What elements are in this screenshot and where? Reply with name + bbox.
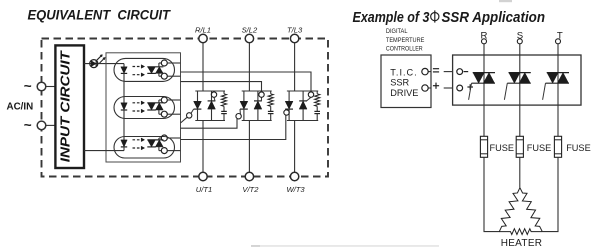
- polarity mark: plus: [433, 83, 439, 89]
- svg-text:EQUIVALENT CIRCUIT: EQUIVALENT CIRCUIT: [28, 8, 172, 24]
- SCR 2a gate terminal: [236, 114, 241, 119]
- heater delta resistor: bottom side: [499, 229, 542, 235]
- terminal R: [482, 39, 487, 44]
- opto U2 light arrows: [133, 101, 145, 113]
- triac Q3: [543, 73, 569, 100]
- AC tilde mark 2: [24, 117, 32, 132]
- snubber resistor R2: [268, 91, 273, 111]
- SCR block 1 top rail: [195, 90, 225, 92]
- svg-text:AC/IN: AC/IN: [7, 102, 34, 113]
- svg-text:SSR Application: SSR Application: [442, 10, 546, 26]
- SCR 3b (right, cathode up): [299, 91, 311, 121]
- polarity mark: double bar: [433, 69, 439, 72]
- svg-text:T/L3: T/L3: [287, 25, 303, 34]
- wire: phase T down to fuse: [557, 44, 559, 137]
- svg-text:~: ~: [24, 79, 32, 94]
- title: EQUIVALENT CIRCUIT: [28, 8, 172, 24]
- SCR 3b gate terminal: [308, 92, 313, 97]
- opto U2 photo-triac: [147, 103, 163, 110]
- terminal V/T2: [245, 172, 253, 180]
- controller output terminal minus: [422, 68, 431, 74]
- cropped artifact: grey bar bottom: [251, 245, 439, 247]
- wire: LED chain return to input circuit: [84, 147, 124, 151]
- node T/L3 label: [287, 25, 303, 34]
- indicator LED D1: [90, 55, 105, 68]
- svg-text:TEMPERTURE: TEMPERTURE: [386, 37, 425, 44]
- node S label: [517, 30, 523, 41]
- node R/L1 label: [195, 25, 211, 34]
- wire: LED chain vertical (anode feed): [123, 64, 125, 67]
- triac Q2: [504, 73, 530, 100]
- node T label: [557, 30, 563, 41]
- optocoupler group box: [106, 53, 181, 162]
- SCR block 2 top rail: [242, 90, 272, 92]
- opto U3 photo-triac: [147, 140, 163, 147]
- label AC/IN: [7, 102, 34, 113]
- SCR 2b gate terminal: [259, 92, 264, 97]
- opto U2 output terminals: [159, 97, 181, 117]
- wire: R/L1 down to SCR block: [202, 43, 204, 91]
- cropped artifact: grey smudge top: [499, 0, 512, 2]
- SCR block 1 bottom rail: [195, 120, 225, 122]
- wire: controller to SSR (plus): [444, 87, 453, 89]
- opto U1 output terminals: [159, 60, 181, 79]
- SCR 3a (left, cathode down): [285, 91, 293, 121]
- SSR module box: [453, 55, 581, 105]
- SCR block 3 bottom rail: [287, 120, 318, 122]
- terminal T: [556, 39, 561, 44]
- wire: SCR block 2 to V/T2: [248, 121, 250, 173]
- SCR 1b gate terminal: [211, 92, 216, 97]
- optocoupler U1 outline: [114, 58, 175, 81]
- svg-text:HEATER: HEATER: [501, 238, 543, 249]
- opto U1 light arrows: [133, 65, 145, 77]
- wire: fuse F1 to heater: [484, 157, 500, 231]
- wire: opto to SCR2 left gate (lower bus): [181, 119, 238, 129]
- heater delta resistor: left side: [499, 188, 520, 232]
- fuse F1: [480, 136, 487, 157]
- opto U3 LED (emitter diode): [121, 140, 127, 147]
- wire: phase R down to fuse: [483, 44, 485, 137]
- opto U1 LED (emitter diode): [121, 67, 127, 103]
- svg-text:T.I.C.: T.I.C.: [390, 67, 417, 77]
- terminal S: [517, 39, 522, 44]
- AC input terminal 2: [37, 121, 46, 130]
- svg-text:V/T2: V/T2: [242, 185, 259, 194]
- wire: controller to SSR (minus): [444, 71, 453, 73]
- wire: fuse F2 to heater apex: [519, 157, 521, 187]
- opto U3 output terminals: [159, 135, 181, 154]
- label FUSE 3: [566, 143, 591, 153]
- SCR 2a (left, cathode down): [240, 91, 248, 121]
- SCR 1b (right, cathode up): [208, 91, 216, 121]
- node R label: [481, 30, 488, 41]
- wire: phase S down to fuse: [519, 44, 521, 137]
- node U/T1 label: [196, 185, 212, 194]
- svg-text:INPUT CIRCUIT: INPUT CIRCUIT: [58, 50, 73, 162]
- svg-text:FUSE: FUSE: [527, 143, 552, 153]
- svg-text:R/L1: R/L1: [195, 25, 211, 34]
- triac Q1: [469, 73, 495, 100]
- node W/T3 label: [287, 185, 306, 194]
- wire: SCR1 left gate to opto: [181, 117, 188, 123]
- svg-text:SSR: SSR: [390, 78, 409, 88]
- wire: fuse F3 to heater: [542, 157, 558, 231]
- svg-text:W/T3: W/T3: [287, 185, 306, 194]
- svg-text:FUSE: FUSE: [490, 143, 515, 153]
- dashed enclosure box: [42, 39, 329, 177]
- terminal S/L2: [245, 34, 253, 42]
- terminal T/L3: [290, 34, 298, 42]
- label: digital temperture controller: [386, 28, 425, 52]
- fuse F3: [554, 136, 561, 157]
- snubber capacitor C1: [221, 111, 227, 120]
- svg-text:DRIVE: DRIVE: [390, 88, 418, 98]
- svg-text:U/T1: U/T1: [196, 185, 212, 194]
- SCR 1a gate terminal: [187, 113, 192, 118]
- title: Example of 3-phase SSR Application: [353, 10, 546, 26]
- SCR 3a gate terminal: [284, 110, 289, 115]
- wire: T/L3 down to SCR block: [294, 43, 296, 91]
- snubber resistor R3: [315, 91, 320, 111]
- opto U3 light arrows: [133, 138, 145, 150]
- node S/L2 label: [242, 25, 258, 34]
- snubber capacitor C2: [268, 111, 274, 120]
- AC tilde mark 1: [24, 79, 32, 94]
- wire: opto to SCR3 left gate (lower bus): [181, 115, 286, 139]
- svg-text:FUSE: FUSE: [566, 143, 591, 153]
- SCR block 2 bottom rail: [242, 120, 272, 122]
- wire: AC terminal 2 to input circuit box: [46, 124, 55, 126]
- controller output terminal plus: [422, 85, 431, 91]
- snubber capacitor C3: [314, 111, 320, 120]
- opto U2 LED (emitter diode): [121, 103, 127, 140]
- SCR 2b (right, cathode up): [254, 91, 262, 121]
- label FUSE 1: [490, 143, 515, 153]
- optocoupler U2 outline: [114, 97, 175, 119]
- optocoupler U3 outline: [114, 137, 175, 159]
- wire: opto to SCR2 gate (upper bus): [181, 82, 262, 92]
- snubber resistor R1: [221, 91, 226, 111]
- fuse F2: [516, 136, 523, 157]
- label FUSE 2: [527, 143, 552, 153]
- label HEATER: [501, 238, 543, 249]
- AC input terminal 1: [37, 82, 46, 91]
- SCR 1a (left, cathode down): [191, 91, 201, 121]
- wire: S/L2 down to SCR block: [248, 43, 250, 91]
- temperature controller box: [381, 55, 431, 108]
- opto U1 photo-triac: [147, 67, 163, 74]
- svg-text:CONTROLLER: CONTROLLER: [386, 45, 423, 52]
- input circuit block: [55, 45, 84, 168]
- wire: SCR block 1 to U/T1: [202, 121, 204, 173]
- svg-text:Example of 3: Example of 3: [353, 10, 430, 26]
- heater delta resistor: right side: [520, 188, 542, 232]
- wire: SCR block 3 to W/T3: [294, 121, 296, 173]
- SSR input terminal plus: [457, 84, 473, 91]
- node V/T2 label: [242, 185, 259, 194]
- svg-text:S/L2: S/L2: [242, 25, 258, 34]
- wire: opto1 to SCR3 gate (upper bus): [181, 72, 312, 92]
- SSR input terminal minus: [457, 69, 468, 75]
- terminal U/T1: [199, 172, 207, 180]
- SCR block 3 top rail: [287, 90, 318, 92]
- svg-text:~: ~: [24, 117, 32, 132]
- terminal W/T3: [290, 172, 298, 180]
- terminal R/L1: [199, 34, 207, 42]
- svg-text:DIGITAL: DIGITAL: [386, 28, 408, 35]
- wire: input circuit to LED chain: [84, 63, 124, 65]
- wire: AC terminal 1 to input circuit box: [46, 86, 55, 88]
